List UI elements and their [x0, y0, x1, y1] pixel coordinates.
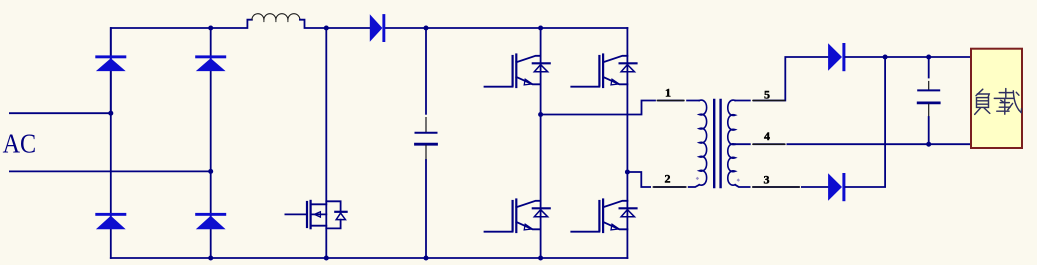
capacitor C2 bottom pin — [928, 104, 930, 117]
diode D4 (bridge bottom-right) — [195, 213, 226, 229]
wire transformer pin 5 to top diode branch — [735, 57, 828, 101]
inductor L1 winding ticks — [264, 20, 288, 22]
diode Q2 anti-parallel — [533, 63, 550, 72]
label 负载 (load) char 载 — [994, 89, 1021, 115]
wire D6 cathode to load — [845, 56, 971, 58]
node bottom rail at left IGBT leg — [538, 256, 543, 261]
node bottom rail at bridge right leg — [208, 256, 213, 261]
transistor Q2 IGBT top-left body — [485, 55, 541, 88]
capacitor C2 bottom lead — [928, 117, 930, 144]
transistor Q5 IGBT bottom-right body — [571, 200, 627, 233]
transformer T1 core — [714, 100, 720, 187]
wire inductor to diode D5 — [300, 20, 370, 28]
node hotspot marker secondary bottom — [737, 178, 740, 181]
node right bridge midpoint — [625, 170, 630, 175]
wire D7 cathode up to output node — [845, 57, 885, 187]
bridge left leg wire — [110, 28, 112, 258]
capacitor C2 top lead — [928, 57, 930, 78]
bridge right leg wire — [210, 28, 212, 258]
wire top rail D5 cathode to right IGBT leg — [385, 27, 627, 29]
capacitor C1 bottom pin — [425, 145, 427, 160]
diode D3 (bridge bottom-left) — [95, 213, 126, 229]
label 负载 (load) char 负 — [975, 89, 990, 114]
diode Q4 anti-parallel — [533, 208, 550, 217]
wire left IGBT leg — [540, 28, 542, 258]
wire bridge output to transformer pin 2 — [627, 172, 699, 187]
transformer T1 pin 5 black segment — [751, 99, 785, 101]
diode D6 (output top) — [828, 43, 845, 71]
diode D7 (output bottom) — [828, 173, 845, 201]
node C2 bottom — [926, 142, 931, 147]
diode D5 (series boost diode) — [370, 14, 386, 42]
node top rail at MOSFET drain — [324, 26, 329, 31]
transformer T1 pin 2 black segment — [651, 186, 688, 188]
transistor Q3 IGBT top-right body — [571, 55, 627, 88]
transistor Q1 MOSFET body — [285, 201, 326, 228]
diode Q3 anti-parallel — [620, 63, 637, 72]
wire bottom rail — [111, 257, 628, 259]
transformer T1 primary winding — [699, 100, 706, 185]
node C2 top — [926, 55, 931, 60]
node hotspot marker primary bottom — [696, 177, 699, 180]
node bottom rail at C1 — [424, 256, 429, 261]
wire bridge output to transformer pin 1 — [541, 101, 700, 115]
node top rail at C1 — [424, 26, 429, 31]
wire transformer pin 3 to bottom diode — [735, 185, 828, 187]
svg-text:5: 5 — [764, 87, 770, 101]
capacitor C1 plates — [416, 133, 437, 145]
svg-text:4: 4 — [764, 129, 770, 143]
svg-text:1: 1 — [665, 85, 671, 99]
transformer T1 pin 3 black segment — [751, 186, 802, 188]
transformer T1 secondary winding upper half — [728, 100, 735, 144]
transformer T1 pin 4 black segment — [751, 143, 787, 145]
inductor L1 — [252, 14, 300, 20]
capacitor C2 top pin — [928, 82, 930, 90]
node top rail at bridge right leg — [208, 26, 213, 31]
diode D1 (bridge top-left) — [95, 55, 126, 71]
wire AC line top — [10, 112, 111, 114]
svg-text:3: 3 — [764, 173, 770, 187]
wire top rail left (bridge top to inductor) — [111, 20, 252, 114]
transformer T1 pin 1 black segment — [656, 99, 686, 101]
load box — [971, 49, 1022, 148]
svg-text:AC: AC — [3, 128, 37, 158]
node bottom rail at MOSFET source — [324, 256, 329, 261]
capacitor C1 top lead — [425, 28, 427, 114]
diode Q5 anti-parallel — [620, 208, 637, 217]
capacitor C1 top pin — [425, 118, 427, 132]
capacitor C1 bottom lead — [425, 160, 427, 258]
node AC top input — [108, 111, 113, 116]
diode Q1 body diode — [326, 201, 346, 228]
node top rail at left IGBT leg — [538, 26, 543, 31]
wire transformer pin 4 centre tap to load — [735, 143, 971, 145]
node output diodes junction — [883, 55, 888, 60]
capacitor C2 plates — [918, 90, 939, 103]
transistor Q1 MOSFET drain-source wire — [325, 28, 327, 258]
wire right IGBT leg — [626, 28, 628, 258]
transformer T1 secondary winding lower half — [728, 144, 735, 185]
node left bridge midpoint — [538, 112, 543, 117]
node AC bottom input — [208, 169, 213, 174]
diode D2 (bridge top-right) — [195, 55, 226, 71]
svg-text:2: 2 — [665, 171, 671, 185]
transistor Q4 IGBT bottom-left body — [485, 200, 541, 233]
wire AC line bottom — [10, 170, 211, 172]
